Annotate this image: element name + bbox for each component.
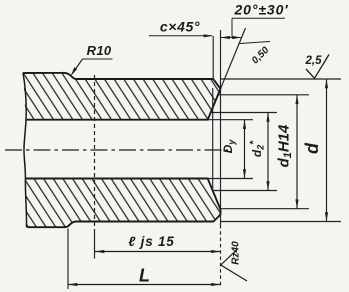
svg-text:c×45°: c×45° bbox=[160, 19, 200, 35]
svg-text:d1H14: d1H14 bbox=[276, 124, 295, 167]
svg-text:d: d bbox=[302, 142, 322, 154]
svg-text:d2*: d2* bbox=[249, 140, 266, 157]
svg-text:0,50: 0,50 bbox=[250, 45, 272, 67]
svg-text:ℓjs15: ℓjs15 bbox=[128, 234, 174, 249]
svg-text:R10: R10 bbox=[87, 43, 112, 58]
svg-text:L: L bbox=[139, 266, 150, 286]
svg-text:Dy: Dy bbox=[221, 139, 237, 154]
svg-text:20°±30′: 20°±30′ bbox=[233, 2, 288, 18]
svg-text:Rz40: Rz40 bbox=[231, 241, 242, 265]
svg-text:2,5: 2,5 bbox=[305, 55, 323, 67]
